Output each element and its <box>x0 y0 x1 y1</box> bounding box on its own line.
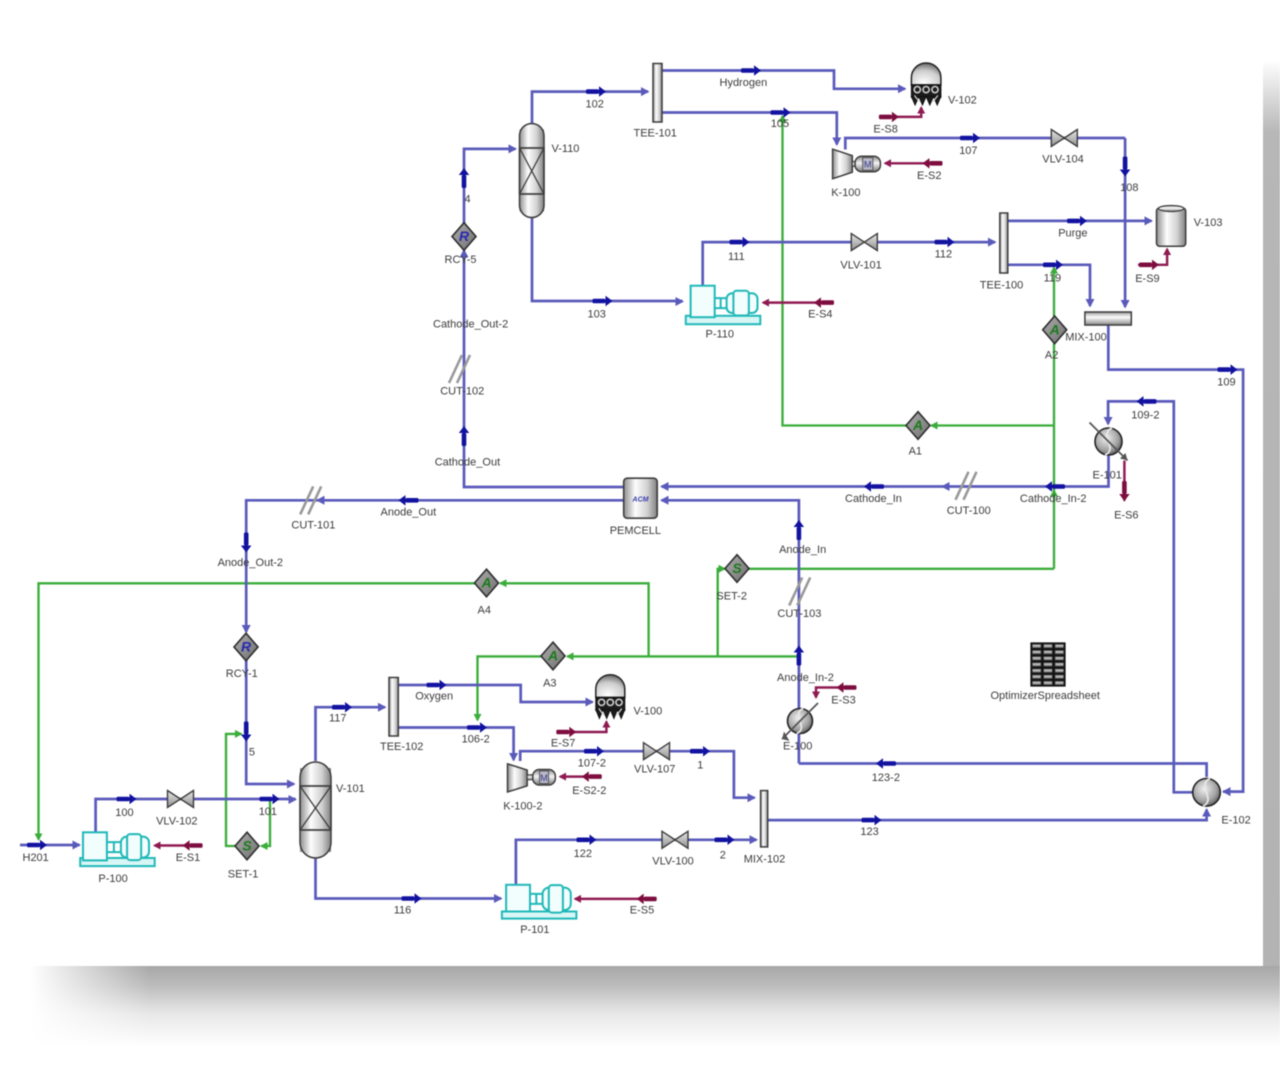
stream Anode_Out arrow after CUT-101 <box>316 496 325 505</box>
stream 105 direction tick <box>771 110 784 115</box>
svg-text:R: R <box>241 639 252 655</box>
svg-text:112: 112 <box>935 249 953 261</box>
svg-text:A3: A3 <box>543 678 556 690</box>
svg-text:107-2: 107-2 <box>578 758 606 770</box>
wire stream Anode_In vertical from E-100 up to PEMCELL <box>662 500 799 708</box>
valve VLV-102 <box>168 791 181 808</box>
column V-110 <box>520 130 545 212</box>
svg-text:4: 4 <box>465 194 471 206</box>
stream Cathode_In-2 direction tick <box>1052 484 1065 489</box>
svg-text:Hydrogen: Hydrogen <box>720 77 768 89</box>
svg-text:CUT-102: CUT-102 <box>440 386 484 398</box>
wire green A3 line from Anode_In-2 stream to A3 <box>567 655 799 657</box>
wire stream 117 from V-101 top to TEE-102 <box>316 707 386 761</box>
vessel V-100 <box>596 675 625 698</box>
svg-text:1: 1 <box>697 760 703 772</box>
stream 1 direction tick <box>690 749 703 754</box>
svg-text:122: 122 <box>574 848 592 860</box>
svg-text:S: S <box>732 560 742 576</box>
stream Oxygen direction tick <box>427 683 440 688</box>
stream Purge direction tick <box>1067 219 1080 224</box>
adjust A3 <box>541 642 565 670</box>
wire stream 103 from V-110 bottom to P-110 <box>532 216 683 301</box>
svg-text:106-2: 106-2 <box>462 734 490 746</box>
svg-text:Anode_Out: Anode_Out <box>381 507 437 519</box>
svg-text:E-S4: E-S4 <box>808 309 832 321</box>
stream 107-2 direction tick <box>584 749 597 754</box>
svg-text:E-S2-2: E-S2-2 <box>572 785 606 797</box>
wire stream Hydrogen from TEE-101 to V-102 <box>663 71 906 89</box>
stream Anode_Out direction tick <box>406 498 419 503</box>
svg-text:102: 102 <box>586 99 604 111</box>
stream H201 direction tick <box>27 843 40 848</box>
svg-text:VLV-107: VLV-107 <box>634 764 675 776</box>
svg-text:123: 123 <box>860 826 878 838</box>
wire stream Oxygen from TEE-102 to V-100 <box>398 685 592 702</box>
cut symbol CUT-103 <box>789 578 802 606</box>
svg-text:A: A <box>547 648 558 664</box>
svg-text:E-S6: E-S6 <box>1114 510 1138 522</box>
wire stream 123-2 from E-102 top to E-100 <box>799 764 1207 778</box>
wire green feed into SET-2 from A3 line <box>718 569 725 657</box>
PEM cell unit PEMCELL <box>624 478 658 518</box>
stream 5 direction tick <box>244 722 249 735</box>
stream 100 direction tick <box>117 797 130 802</box>
energy E-S9 tick <box>1139 263 1152 268</box>
page drop shadow bottom <box>30 966 1280 1046</box>
wire green A1-measure from stream 105 down to A1 level <box>783 118 907 426</box>
svg-text:VLV-102: VLV-102 <box>156 816 197 828</box>
energy E-S8 tick <box>879 115 892 120</box>
wire stream 107-2 / 1 from K-100-2 through VLV-107 to MIX-102 <box>520 751 754 798</box>
svg-text:Cathode_In: Cathode_In <box>845 493 902 505</box>
wire energy stream E-S6 out of E-101 <box>1123 461 1125 501</box>
wire green SET-1 output to recycle stream 5 line <box>226 734 242 846</box>
svg-text:Oxygen: Oxygen <box>415 691 453 703</box>
wire stream 102 from V-110 top to TEE-101 <box>532 92 648 124</box>
svg-text:V-102: V-102 <box>948 95 977 107</box>
wire stream 107 from K-100 through VLV-104 <box>845 138 1125 150</box>
wire green SET-2 output to A2 vertical <box>748 568 1054 570</box>
svg-text:Anode_Out-2: Anode_Out-2 <box>218 557 283 569</box>
svg-text:E-S5: E-S5 <box>630 905 654 917</box>
wire stream 123 from MIX-102 to E-102 bottom <box>768 810 1207 821</box>
svg-text:105: 105 <box>771 118 789 130</box>
energy E-S2-2 tick <box>589 774 602 779</box>
wire stream 109 from MIX-100 to E-102 hot inlet <box>1108 325 1243 792</box>
wire green arrow onto Cathode_In-2 stream <box>1050 489 1058 497</box>
svg-text:123-2: 123-2 <box>872 772 900 784</box>
tee TEE-100 <box>1000 213 1008 273</box>
wire green feed into SET-1 from stream 101 <box>261 801 270 847</box>
stream 123 direction tick <box>862 818 875 823</box>
svg-text:ACM: ACM <box>632 497 649 504</box>
svg-text:VLV-104: VLV-104 <box>1042 154 1083 166</box>
svg-text:RCY-5: RCY-5 <box>445 254 477 266</box>
svg-text:A: A <box>480 575 491 591</box>
tee TEE-102 <box>389 678 398 737</box>
adjust A4 <box>475 569 499 597</box>
svg-text:M: M <box>540 773 548 783</box>
svg-text:TEE-101: TEE-101 <box>634 128 677 140</box>
stream Cathode_In direction tick <box>871 484 884 489</box>
compressor K-100-2 <box>508 764 528 792</box>
adjust A1 <box>906 412 930 440</box>
wire energy stream E-S5 into P-101 motor <box>575 898 654 900</box>
svg-text:V-103: V-103 <box>1194 217 1223 229</box>
svg-text:SET-1: SET-1 <box>228 869 259 881</box>
svg-text:117: 117 <box>329 713 347 725</box>
svg-text:Anode_In: Anode_In <box>779 544 826 556</box>
svg-text:A: A <box>1049 321 1060 337</box>
stream 109 direction tick <box>1218 367 1231 372</box>
svg-text:103: 103 <box>588 309 606 321</box>
wire energy stream E-S1 into P-100 motor <box>155 844 202 846</box>
wire energy stream E-S9 into V-103 <box>1138 249 1167 265</box>
svg-text:P-110: P-110 <box>706 329 735 341</box>
cut symbol CUT-100 <box>956 472 969 500</box>
svg-text:OptimizerSpreadsheet: OptimizerSpreadsheet <box>991 690 1100 702</box>
stream 103 direction tick <box>593 299 606 304</box>
energy E-S5 tick <box>644 897 657 902</box>
wire stream Anode_Out from PEMCELL to Anode_Out-2 elbow and RCY-1 <box>246 500 624 632</box>
wire stream Purge from TEE-100 to V-103 <box>1008 220 1152 223</box>
svg-text:109: 109 <box>1217 377 1235 389</box>
svg-text:Cathode_Out: Cathode_Out <box>435 457 500 469</box>
svg-text:2: 2 <box>720 850 726 862</box>
wire energy stream E-S2 into K-100 motor <box>885 162 941 164</box>
cut symbol CUT-101 <box>300 486 313 514</box>
spreadsheet block OptimizerSpreadsheet <box>1031 643 1065 686</box>
svg-text:119: 119 <box>1044 273 1062 285</box>
svg-text:Cathode_In-2: Cathode_In-2 <box>1020 493 1087 505</box>
wire stream Cathode_In-2 / Cathode_In from E-101 to PEMCELL <box>662 456 1109 487</box>
wire stream 100 / 101 from P-100 through VLV-102 to V-101 <box>96 799 296 832</box>
wire energy stream E-S4 into P-110 motor <box>763 301 833 303</box>
svg-text:A: A <box>912 417 923 433</box>
svg-text:M: M <box>864 159 872 169</box>
valve VLV-101 <box>851 234 864 251</box>
svg-text:E-S9: E-S9 <box>1135 273 1159 285</box>
wire stream H201 feed into P-100 <box>20 844 80 847</box>
wire stream Cathode_Out from PEMCELL to RCY-5 <box>464 251 624 488</box>
svg-text:E-S1: E-S1 <box>176 852 200 864</box>
svg-text:V-100: V-100 <box>634 706 663 718</box>
svg-text:TEE-100: TEE-100 <box>980 280 1023 292</box>
energy E-S4 tick <box>821 300 834 305</box>
stream Cathode_In arrow after CUT-100 <box>941 482 950 491</box>
wire stream 119 from TEE-100 to MIX-100 <box>1008 265 1090 306</box>
pump P-101 <box>502 912 577 919</box>
wire stream 122 / 2 from P-101 through VLV-100 to MIX-102 <box>516 840 757 885</box>
stream 119 direction tick <box>1043 263 1056 268</box>
cut symbol CUT-102 <box>449 355 462 383</box>
mixer MIX-102 <box>761 791 768 847</box>
wire green into A1 right side <box>931 424 1054 426</box>
svg-text:E-S2: E-S2 <box>917 170 941 182</box>
wire stream 111 from P-110 to VLV-101 <box>703 242 851 285</box>
svg-text:5: 5 <box>249 747 255 759</box>
svg-text:H201: H201 <box>23 852 49 864</box>
wire stream 106-2 from TEE-102 to K-100-2 <box>398 728 513 761</box>
set SET-2 <box>725 555 749 583</box>
svg-text:E-S3: E-S3 <box>831 695 855 707</box>
stream 109-2 direction tick <box>1144 399 1157 404</box>
wire stream 112 from VLV-101 to TEE-100 <box>878 241 996 244</box>
recycle RCY-5 <box>452 223 476 251</box>
svg-text:109-2: 109-2 <box>1131 410 1159 422</box>
vessel V-102 <box>911 63 941 85</box>
svg-text:MIX-100: MIX-100 <box>1065 332 1107 344</box>
stream 106-2 direction tick <box>467 725 480 730</box>
valve VLV-107 <box>644 743 657 760</box>
stream Cathode_Out direction tick <box>462 433 467 446</box>
wire energy stream E-S3 into E-100 <box>816 688 855 698</box>
recycle RCY-1 <box>234 633 258 661</box>
wire stream 5 from RCY-1 to V-101 <box>246 661 294 785</box>
pump P-110 <box>686 316 761 324</box>
svg-text:VLV-101: VLV-101 <box>840 260 881 272</box>
svg-text:VLV-100: VLV-100 <box>652 856 693 868</box>
tank V-103 <box>1157 208 1186 246</box>
svg-text:S: S <box>242 838 252 854</box>
svg-text:101: 101 <box>259 806 277 818</box>
stream Anode_Out-2 direction tick <box>244 533 249 546</box>
wire green branch up to A4 line <box>500 583 649 656</box>
svg-text:E-101: E-101 <box>1093 470 1122 482</box>
stream Anode_In-2 direction tick <box>797 653 802 666</box>
svg-text:E-S8: E-S8 <box>873 124 897 136</box>
svg-text:Cathode_Out-2: Cathode_Out-2 <box>433 319 508 331</box>
heat exchanger E-100 <box>788 709 813 734</box>
svg-text:K-100: K-100 <box>831 187 860 199</box>
wire stream 109-2 from E-102 to E-101 <box>1108 401 1193 792</box>
stream 108 direction tick <box>1123 157 1128 170</box>
energy E-S7 tick <box>556 730 569 735</box>
stream 4 direction tick <box>462 175 467 188</box>
svg-text:CUT-103: CUT-103 <box>777 608 821 620</box>
wire green A3 output down to stream 106-2 <box>478 656 543 720</box>
svg-text:E-102: E-102 <box>1221 815 1250 827</box>
energy E-S3 tick <box>844 685 857 690</box>
svg-text:116: 116 <box>394 905 412 917</box>
svg-text:V-101: V-101 <box>336 783 365 795</box>
wire green A4 output long left line down to stream H201 <box>39 583 476 839</box>
svg-text:CUT-101: CUT-101 <box>291 520 335 532</box>
svg-text:CUT-100: CUT-100 <box>947 505 991 517</box>
svg-text:100: 100 <box>115 807 133 819</box>
stream 112 direction tick <box>935 240 948 245</box>
tee TEE-101 <box>653 64 662 123</box>
energy E-S1 tick <box>190 843 203 848</box>
svg-text:Purge: Purge <box>1058 228 1087 240</box>
stream 101 direction tick <box>260 797 273 802</box>
stream Anode_In direction tick <box>797 527 802 540</box>
energy E-S2 tick <box>930 161 943 166</box>
wire energy stream E-S2-2 into K-100-2 motor <box>560 775 600 777</box>
stream 107 direction tick <box>960 136 973 141</box>
heat exchanger E-101 <box>1095 428 1122 455</box>
svg-text:PEMCELL: PEMCELL <box>610 525 661 537</box>
wire green main vertical A2 line from stream 119 down to SET-2 level <box>1053 268 1055 569</box>
svg-text:107: 107 <box>959 145 977 157</box>
svg-text:V-110: V-110 <box>552 143 580 155</box>
pump P-100 <box>80 858 155 866</box>
svg-text:P-100: P-100 <box>98 873 127 885</box>
svg-text:K-100-2: K-100-2 <box>503 801 542 813</box>
mixer MIX-100 <box>1085 312 1131 325</box>
stream 102 direction tick <box>586 89 599 94</box>
page drop shadow right <box>1263 60 1280 966</box>
stream 122 direction tick <box>577 838 590 843</box>
valve VLV-100 <box>662 831 675 848</box>
stream 123-2 direction tick <box>883 761 896 766</box>
wire stream 116 from V-101 bottom to P-101 <box>316 857 502 899</box>
svg-text:A1: A1 <box>909 446 922 458</box>
wire energy stream E-S8 into V-102 <box>888 108 921 117</box>
wire stream 108 from VLV-104 down to MIX-100 <box>1124 138 1127 307</box>
wire energy stream E-S7 into V-100 <box>566 722 606 733</box>
svg-text:E-S7: E-S7 <box>551 738 575 750</box>
svg-text:A4: A4 <box>478 605 491 617</box>
compressor K-100 <box>833 149 853 179</box>
heat exchanger E-102 <box>1193 779 1221 807</box>
svg-text:E-100: E-100 <box>783 741 812 753</box>
svg-text:R: R <box>459 228 470 244</box>
svg-text:Anode_In-2: Anode_In-2 <box>777 672 834 684</box>
stream 117 direction tick <box>332 705 345 710</box>
wire stream 4 from RCY-5 to V-110 <box>464 149 516 225</box>
wire stream Anode_In-2 below E-100 <box>798 734 801 764</box>
stream 116 direction tick <box>402 896 415 901</box>
stream 2 direction tick <box>715 838 728 843</box>
svg-text:A2: A2 <box>1045 350 1058 362</box>
stream 111 direction tick <box>730 240 743 245</box>
energy E-S6 tick <box>1122 481 1127 494</box>
svg-text:SET-2: SET-2 <box>716 591 747 603</box>
valve VLV-104 <box>1051 130 1064 147</box>
svg-text:111: 111 <box>728 251 745 263</box>
svg-text:108: 108 <box>1120 182 1138 194</box>
svg-text:RCY-1: RCY-1 <box>226 668 258 680</box>
svg-text:MIX-102: MIX-102 <box>744 854 786 866</box>
set SET-1 <box>235 832 259 860</box>
wire stream 105 from TEE-101 to K-100 <box>663 113 837 145</box>
svg-text:TEE-102: TEE-102 <box>380 741 423 753</box>
svg-text:P-101: P-101 <box>520 924 549 936</box>
stream Hydrogen direction tick <box>741 68 754 73</box>
column V-101 <box>300 768 331 852</box>
adjust A2 <box>1043 316 1067 344</box>
